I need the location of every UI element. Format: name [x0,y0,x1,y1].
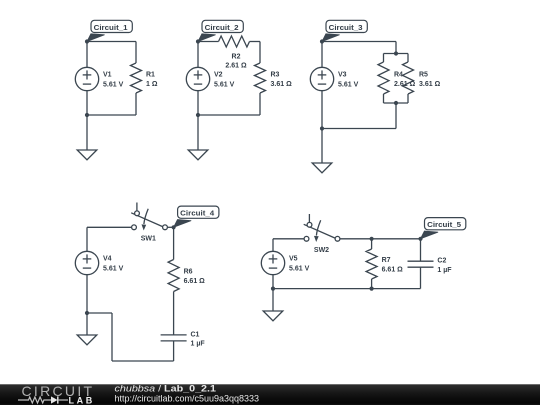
wire V4 bottom lead [86,275,88,313]
junction node flag circuit 3 [320,39,324,43]
logo diode [51,396,58,403]
node flag Circuit_2 [198,20,243,41]
junction node circuit 4 top [172,225,176,229]
wire R3 top lead [259,42,261,64]
svg-text:2.61 Ω: 2.61 Ω [394,81,416,88]
svg-text:Circuit_1: Circuit_1 [94,23,128,32]
wire C2 top lead [420,239,422,261]
voltage source V4 [75,251,98,274]
junction node flag circuit 2 [196,39,200,43]
capacitor C2 [408,261,434,267]
node flag Circuit_1 [87,20,132,41]
wire bottom rail circuit 2 [198,114,260,116]
capacitor C1 [161,335,187,341]
wire R7 bottom lead [371,279,373,289]
svg-text:chubbsa / Lab_0_2.1: chubbsa / Lab_0_2.1 [115,383,217,393]
wire top rail left circuit 2 [198,41,219,43]
svg-text:SW1: SW1 [141,235,156,242]
footer bar [0,384,540,405]
resistor R7 [366,249,377,279]
wire parallel top bar [384,53,409,55]
svg-text:Circuit_4: Circuit_4 [180,209,215,218]
wire parallel feed top [395,42,397,54]
ground circuit 1 [77,150,97,160]
wire V3 top lead [321,42,323,68]
svg-text:V1: V1 [103,72,112,79]
svg-text:6.61 Ω: 6.61 Ω [382,267,404,274]
wire C2 bottom lead [420,267,422,288]
wire top rail right circuit 2 [250,41,261,43]
switch common terminal SW2 [335,236,340,241]
resistor R6 [168,260,179,292]
svg-text:V5: V5 [289,256,298,263]
wire V2 bottom lead [197,91,199,115]
ground circuit 2 [188,150,208,160]
svg-text:5.61 V: 5.61 V [289,265,310,272]
wire ground lead circuit 2 [197,115,199,150]
svg-text:SW2: SW2 [314,247,329,254]
switch pole terminal SW2 [304,236,309,241]
wire bottom riser circuit 4 [111,313,113,361]
switch pole terminal SW1 [132,225,137,230]
wire V5 bottom lead [272,275,274,289]
wire R5 bottom lead [407,94,409,103]
wire R1 top lead [135,42,137,64]
resistor R2 [219,36,250,47]
wire top rail right circuit 5 [340,238,421,240]
wire C1 bottom lead [173,341,175,361]
node flag Circuit_5 [421,218,466,239]
resistor R5 [403,62,414,94]
svg-text:C2: C2 [437,258,446,265]
svg-text:3.61 Ω: 3.61 Ω [271,81,293,88]
ground circuit 3 [312,163,332,173]
svg-text:Circuit_2: Circuit_2 [205,23,239,32]
junction node circuit 5 bottom [271,287,275,291]
svg-text:V2: V2 [214,72,223,79]
svg-text:C1: C1 [191,331,200,338]
wire bottom left circuit 4 [87,312,112,314]
svg-text:R7: R7 [382,257,391,264]
wire R6 to C1 lead [173,292,175,335]
switch actuation arrow SW2 [314,220,321,242]
svg-text:Circuit_3: Circuit_3 [329,23,363,32]
wire V1 bottom lead [86,91,88,115]
wire ground lead circuit 5 [272,289,274,311]
svg-text:http://circuitlab.com/c5uu9a3q: http://circuitlab.com/c5uu9a3qq8333 [115,393,260,403]
junction node C2 top [418,237,422,241]
switch common terminal SW1 [163,225,168,230]
wire bottom rail circuit 1 [87,114,136,116]
switch lever SW2 [304,224,335,238]
svg-text:R5: R5 [419,71,428,78]
junction node parallel top [394,51,398,55]
svg-text:R2: R2 [232,54,241,61]
svg-text:V3: V3 [338,72,347,79]
wire V4 top lead [86,227,88,251]
svg-text:2.61 Ω: 2.61 Ω [225,63,247,70]
wire V2 top lead [197,42,199,68]
wire ground lead circuit 3 [321,129,323,164]
junction node flag circuit 1 [85,39,89,43]
voltage source V3 [310,67,333,90]
switch throw terminal stub wire SW2 [308,214,310,223]
svg-text:R3: R3 [271,71,280,78]
svg-text:R6: R6 [184,268,193,275]
svg-text:Circuit_5: Circuit_5 [427,220,461,229]
wire parallel feed bottom [395,103,397,129]
node flag Circuit_4 [174,206,219,227]
svg-text:6.61 Ω: 6.61 Ω [184,278,206,285]
voltage source V2 [186,67,209,90]
wire R4 bottom lead [383,94,385,103]
wire top rail circuit 3 [322,41,396,43]
resistor R3 [255,63,266,93]
switch lever SW1 [131,213,162,227]
wire R4 top lead [383,54,385,63]
voltage source V1 [75,67,98,90]
wire V1 top lead [86,42,88,68]
svg-text:LAB: LAB [69,395,95,405]
svg-text:R4: R4 [394,71,403,78]
wire top rail circuit 1 [87,41,136,43]
svg-text:1 Ω: 1 Ω [146,81,158,88]
switch throw terminal stub wire SW1 [136,203,138,212]
junction node circuit 4 bottom [85,311,89,315]
svg-text:5.61 V: 5.61 V [338,81,359,88]
wire bottom rail circuit 4 [112,360,174,362]
wire ground lead circuit 1 [86,115,88,150]
ground circuit 4 [77,335,97,345]
junction node parallel bottom [394,101,398,105]
svg-text:5.61 V: 5.61 V [103,81,124,88]
svg-text:1 µF: 1 µF [191,341,206,348]
resistor R4 [378,62,389,94]
wire V5 top lead [272,239,274,252]
wire top rail circuit 4 [87,226,132,228]
svg-text:V4: V4 [103,256,112,263]
switch actuation arrow SW1 [142,209,149,231]
svg-text:3.61 Ω: 3.61 Ω [419,81,441,88]
junction node circuit 1 bottom [85,113,89,117]
switch throw terminal SW1 [135,211,140,216]
wire R5 top lead [407,54,409,63]
wire ground lead circuit 4 [86,313,88,335]
wire R1 bottom lead [135,93,137,115]
svg-text:5.61 V: 5.61 V [103,265,124,272]
wire V3 bottom lead [321,91,323,129]
wire switch to node circuit 4 [167,226,173,228]
switch throw terminal SW2 [307,222,312,227]
wire top rail left circuit 5 [273,238,304,240]
svg-text:5.61 V: 5.61 V [214,81,235,88]
voltage source V5 [261,251,284,274]
wire R7 top lead [371,239,373,249]
resistor R1 [131,63,142,93]
wire parallel bottom bar [384,102,409,104]
node flag Circuit_3 [322,20,367,41]
junction node R7 top [370,237,374,241]
svg-text:R1: R1 [146,71,155,78]
junction node R7 bottom [370,287,374,291]
wire bottom rail circuit 5 [273,288,421,290]
svg-text:1 µF: 1 µF [437,267,452,274]
wire bottom rail circuit 3 [322,128,396,130]
junction node circuit 3 bottom [320,126,324,130]
wire R3 bottom lead [259,93,261,115]
logo wire with resistor [18,397,51,403]
junction node circuit 2 bottom [196,113,200,117]
ground circuit 5 [263,311,283,321]
wire R6 top lead [173,227,175,259]
